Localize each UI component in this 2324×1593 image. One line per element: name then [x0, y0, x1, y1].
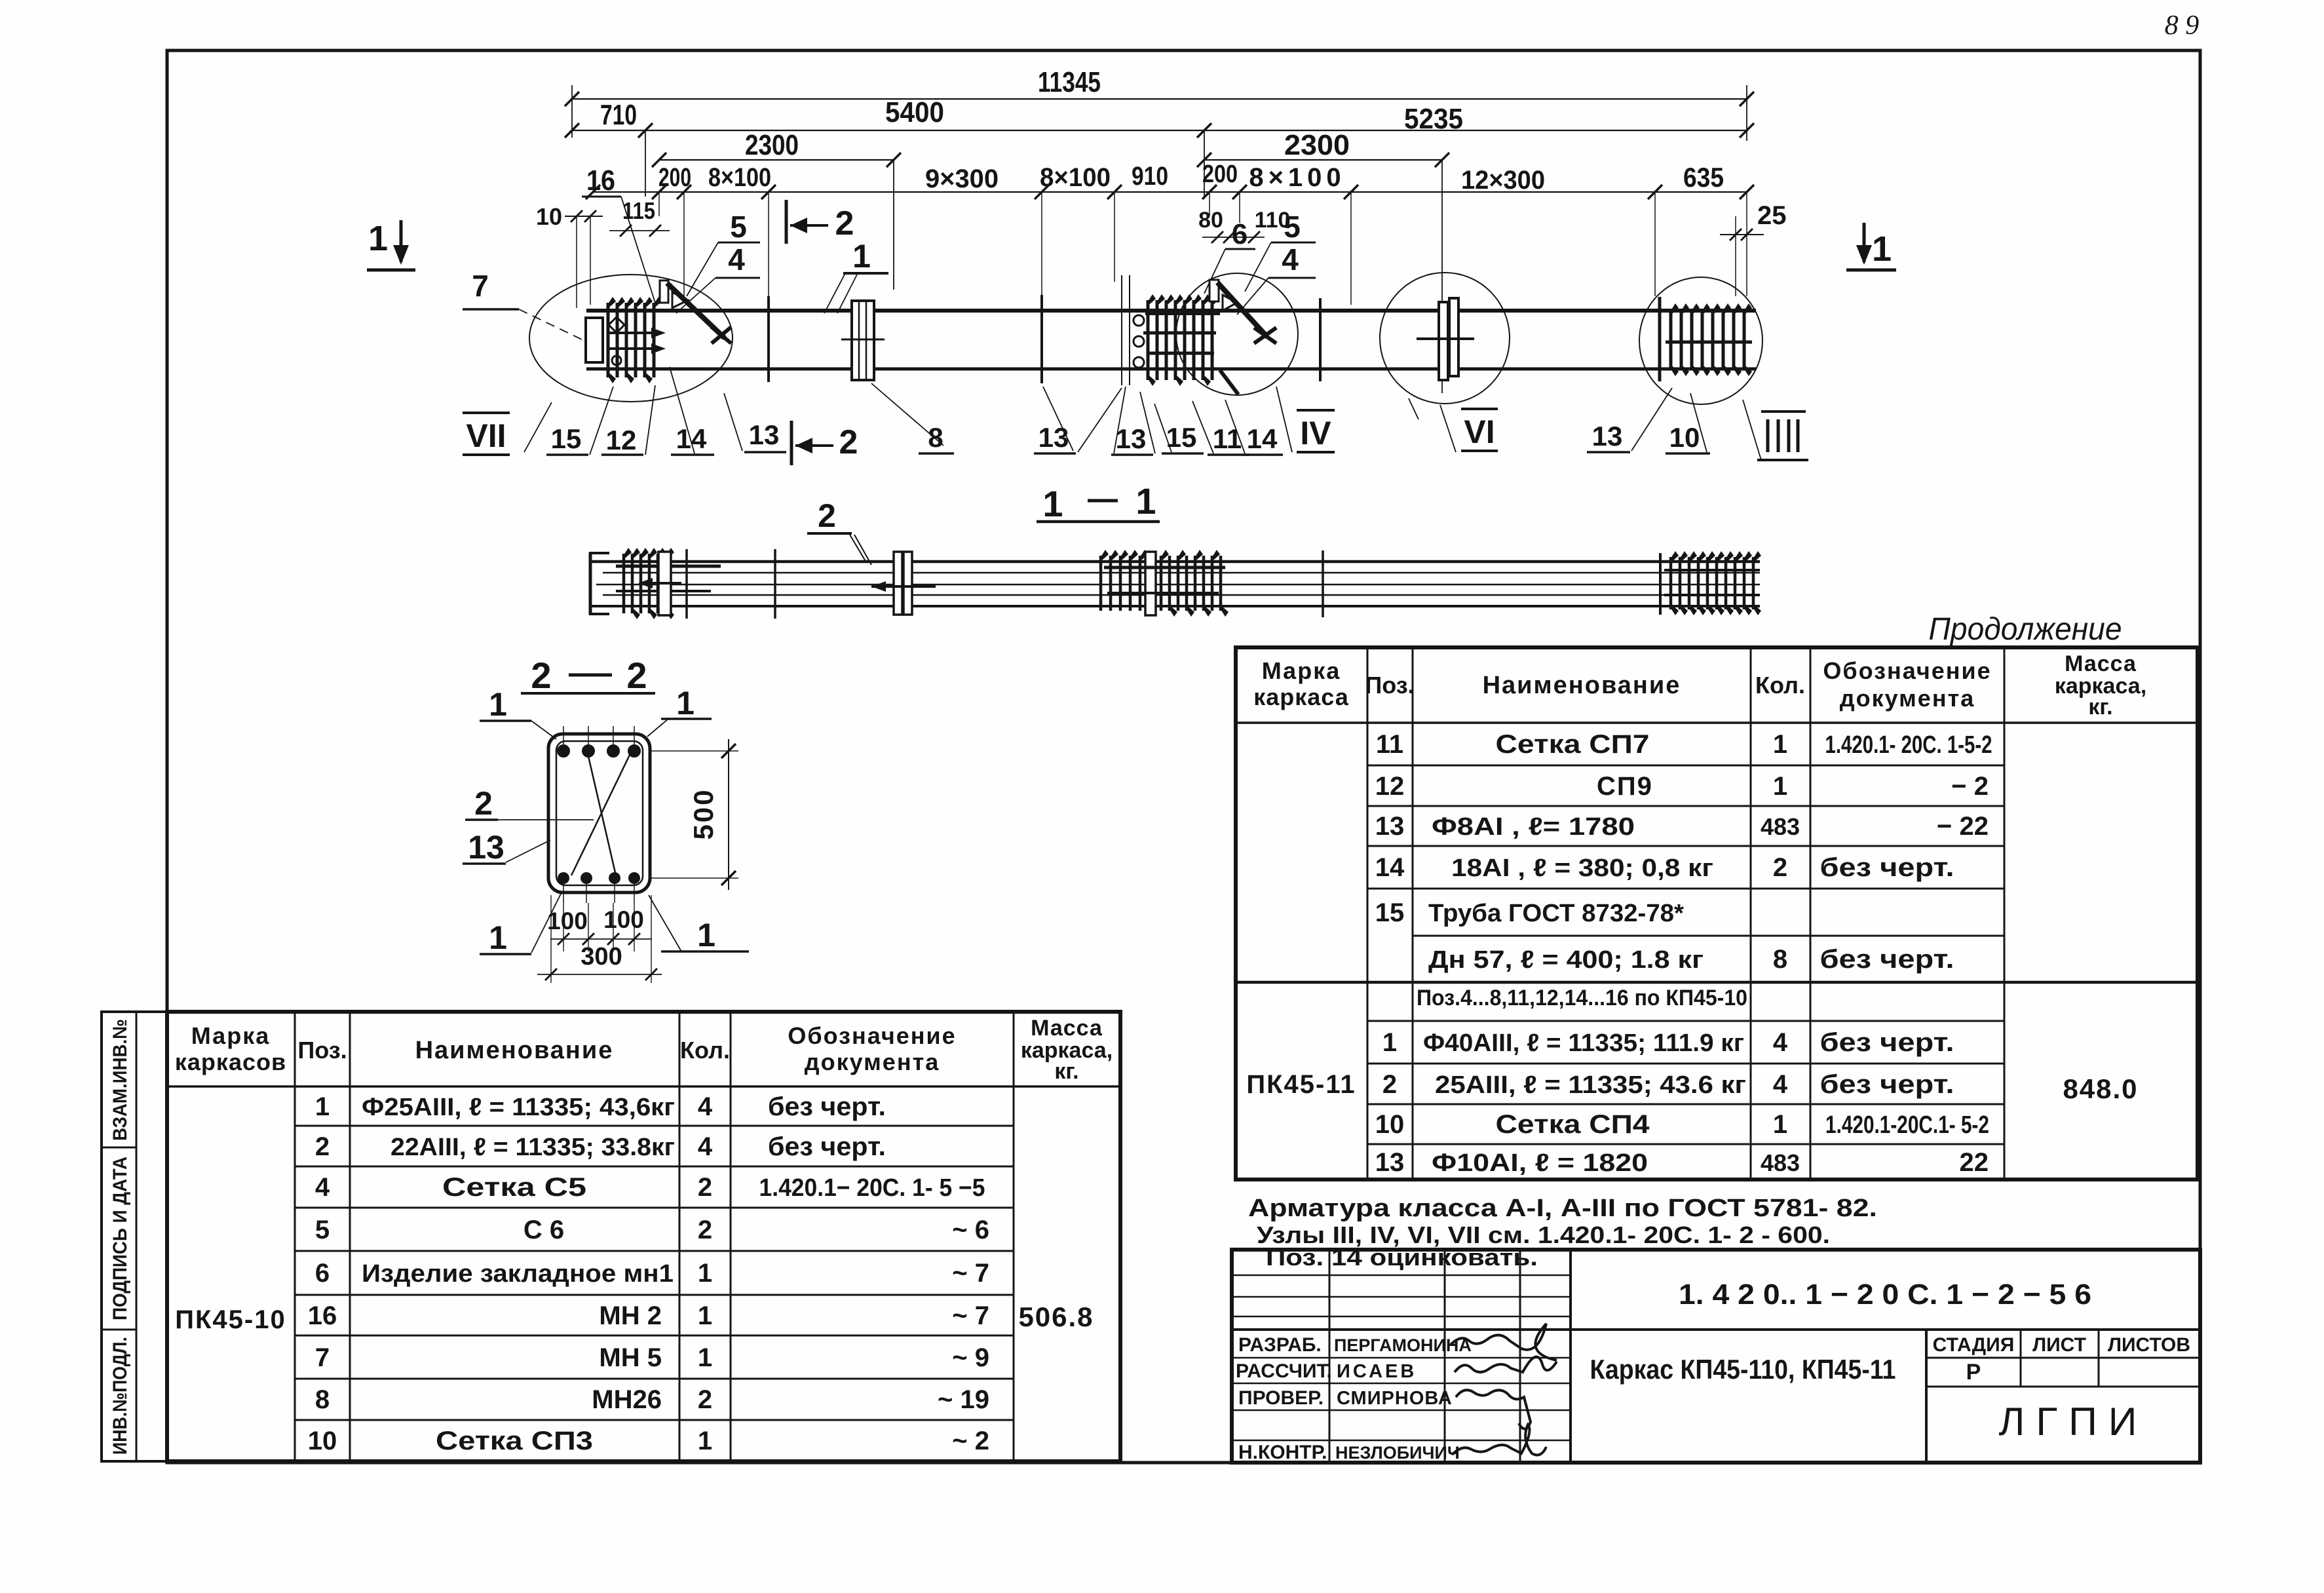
svg-text:НЕЗЛОБИЧИЧ: НЕЗЛОБИЧИЧ: [1335, 1443, 1460, 1463]
svg-text:Н.КОНТР.: Н.КОНТР.: [1238, 1442, 1327, 1463]
svg-text:без черт.: без черт.: [1820, 1070, 1954, 1099]
svg-text:1: 1: [852, 238, 871, 275]
margin strip box: [102, 1012, 167, 1461]
svg-text:2: 2: [531, 655, 551, 696]
svg-text:5235: 5235: [1404, 103, 1463, 135]
svg-text:15: 15: [1375, 898, 1405, 927]
section 1-1 mid plate: [894, 552, 902, 615]
svg-text:каркасов: каркасов: [175, 1048, 286, 1075]
svg-text:СМИРНОВА: СМИРНОВА: [1337, 1388, 1453, 1409]
detail circle VI: [1380, 273, 1510, 404]
embedded plate MH (pos 7) at left end: [586, 318, 603, 362]
svg-text:1.420.1− 20С. 1- 5 −5: 1.420.1− 20С. 1- 5 −5: [759, 1174, 985, 1202]
svg-text:12: 12: [1375, 772, 1405, 801]
svg-text:ИНВ.№ПОДЛ.: ИНВ.№ПОДЛ.: [109, 1337, 131, 1455]
svg-text:4: 4: [1773, 1028, 1788, 1057]
svg-text:2: 2: [818, 497, 836, 534]
svg-text:каркаса: каркаса: [1253, 683, 1349, 710]
svg-text:2: 2: [1773, 853, 1787, 882]
dimension row 710 / 5400 / 5235: [572, 130, 1747, 131]
svg-text:16: 16: [586, 164, 615, 197]
svg-text:910: 910: [1132, 162, 1168, 191]
detail circle IV: [1176, 273, 1298, 395]
svg-text:14: 14: [676, 423, 707, 454]
svg-text:Поз.: Поз.: [1365, 672, 1414, 699]
node label VI: [1461, 408, 1498, 410]
section 1-1 left cluster: [622, 554, 626, 613]
svg-text:1: 1: [368, 219, 388, 258]
svg-text:документа: документа: [1840, 685, 1975, 712]
svg-text:8: 8: [1773, 945, 1787, 974]
section mark 2 (bottom): [790, 421, 793, 465]
svg-text:80: 80: [1198, 208, 1223, 233]
svg-text:1: 1: [697, 917, 715, 953]
svg-text:11345: 11345: [1038, 66, 1101, 98]
svg-text:7: 7: [315, 1343, 330, 1372]
dimension 2300 left: [659, 159, 894, 161]
svg-text:848.0: 848.0: [2063, 1073, 2138, 1104]
svg-text:6: 6: [1232, 218, 1248, 250]
svg-text:Л Г П И: Л Г П И: [1999, 1400, 2137, 1444]
section 1-1 mid cluster: [1099, 556, 1103, 611]
svg-text:2: 2: [1382, 1070, 1397, 1099]
svg-text:1: 1: [489, 686, 507, 723]
svg-text:1: 1: [1872, 229, 1892, 269]
svg-text:Обозначение: Обозначение: [1823, 657, 1991, 684]
left cluster cross bars: [608, 332, 655, 334]
dimension 10 (left end offset): [565, 216, 603, 217]
svg-text:Поз.: Поз.: [297, 1037, 347, 1064]
beam top chord: [586, 309, 1756, 313]
svg-text:9×300: 9×300: [925, 164, 999, 193]
svg-text:710: 710: [600, 99, 637, 131]
svg-text:10: 10: [536, 203, 562, 230]
svg-text:11: 11: [1213, 423, 1242, 454]
node label IV: [1297, 409, 1335, 412]
svg-text:1: 1: [698, 1427, 712, 1455]
svg-text:5: 5: [730, 210, 747, 244]
svg-text:1: 1: [698, 1343, 712, 1372]
tube plate (pos 8): [852, 301, 874, 380]
svg-text:5: 5: [1284, 210, 1301, 244]
title block columns: [1329, 1250, 1331, 1463]
svg-text:1.420.1- 20С. 1-5-2: 1.420.1- 20С. 1-5-2: [1825, 731, 1992, 759]
svg-text:15: 15: [551, 423, 582, 454]
svg-text:22АIII, ℓ = 11335; 33.8кг: 22АIII, ℓ = 11335; 33.8кг: [391, 1134, 675, 1161]
weld diamond symbol: [609, 317, 624, 333]
svg-text:без черт.: без черт.: [1820, 1028, 1954, 1057]
svg-text:8×100: 8×100: [1040, 163, 1111, 192]
hole circle: [612, 356, 621, 365]
svg-text:IV: IV: [1300, 415, 1331, 451]
svg-text:Масса: Масса: [1031, 1016, 1103, 1041]
svg-text:Дн 57, ℓ = 400; 1.8 кг: Дн 57, ℓ = 400; 1.8 кг: [1428, 946, 1704, 974]
svg-text:2: 2: [698, 1173, 712, 1202]
svg-text:8: 8: [315, 1385, 330, 1414]
svg-text:2: 2: [835, 204, 854, 242]
mid cluster cross bars: [1145, 311, 1220, 315]
svg-text:Труба ГОСТ 8732-78*: Труба ГОСТ 8732-78*: [1428, 900, 1684, 927]
svg-text:ПЕРГАМОНИНА: ПЕРГАМОНИНА: [1334, 1335, 1472, 1355]
svg-text:Сетка СП3: Сетка СП3: [436, 1427, 593, 1455]
svg-text:МН 5: МН 5: [599, 1343, 662, 1372]
svg-text:Наименование: Наименование: [1483, 672, 1681, 699]
svg-text:Сетка СП4: Сетка СП4: [1496, 1110, 1650, 1139]
svg-text:Арматура класса А-I, А-III: Арматура класса А-I, А-III по ГОСТ 5781-…: [1248, 1195, 1877, 1222]
callout 16 leader: [582, 196, 621, 198]
svg-text:4: 4: [1282, 242, 1299, 277]
staff rows: [1232, 1357, 1571, 1359]
svg-text:Марка: Марка: [191, 1022, 270, 1049]
svg-text:Ф10АI, ℓ = 1820: Ф10АI, ℓ = 1820: [1432, 1149, 1648, 1177]
svg-text:ВЗАМ.ИНВ.№: ВЗАМ.ИНВ.№: [109, 1019, 131, 1141]
left table header underline: [167, 1085, 1120, 1088]
right table column lines: [1367, 647, 1369, 1180]
svg-text:~ 2: ~ 2: [952, 1427, 989, 1455]
svg-text:25: 25: [1757, 201, 1787, 230]
svg-text:200: 200: [658, 163, 691, 192]
svg-text:ЛИСТОВ: ЛИСТОВ: [2108, 1334, 2190, 1356]
svg-text:7: 7: [472, 269, 489, 303]
svg-text:кг.: кг.: [1054, 1059, 1078, 1084]
tube plate at detail VI: [1439, 302, 1448, 380]
svg-text:506.8: 506.8: [1018, 1301, 1094, 1332]
svg-text:10: 10: [1669, 422, 1700, 453]
svg-text:Ф8АI , ℓ= 1780: Ф8АI , ℓ= 1780: [1432, 813, 1635, 841]
svg-text:10: 10: [1375, 1110, 1405, 1139]
svg-text:16: 16: [308, 1301, 337, 1330]
svg-text:12×300: 12×300: [1461, 166, 1545, 195]
title block top rows (blank): [1232, 1275, 1571, 1276]
svg-text:Обозначение: Обозначение: [788, 1022, 956, 1049]
svg-text:Ф25АIII, ℓ = 11335; 43,6кг: Ф25АIII, ℓ = 11335; 43,6кг: [362, 1094, 675, 1121]
svg-text:Изделие закладное мн1: Изделие закладное мн1: [362, 1260, 674, 1288]
section 2-2 stirrup outline: [548, 734, 650, 892]
svg-text:483: 483: [1761, 813, 1800, 840]
dimension row 200 8x100 9x300 8x100 910 200 8x100 12x300 635: [593, 191, 1747, 193]
section 1-1 left end bracket: [589, 552, 592, 615]
svg-text:1: 1: [698, 1301, 712, 1330]
svg-text:8 9: 8 9: [2165, 10, 2200, 41]
svg-text:СТАДИЯ: СТАДИЯ: [1933, 1334, 2015, 1356]
svg-text:6: 6: [315, 1259, 330, 1288]
cell Karkas title: [1925, 1330, 1928, 1463]
title block outer: [1232, 1250, 2200, 1463]
left stirrup cluster (mesh C5/C6 zone): [607, 303, 610, 377]
left table row lines: [295, 1125, 1014, 1127]
svg-text:8: 8: [928, 422, 943, 453]
detail circle VII: [529, 275, 733, 402]
svg-text:С 6: С 6: [524, 1216, 564, 1244]
beam bottom chord: [586, 368, 1756, 371]
svg-text:1: 1: [1382, 1028, 1397, 1057]
section 1-1 tick: [1322, 550, 1324, 617]
svg-text:МН 2: МН 2: [599, 1301, 662, 1330]
svg-text:13: 13: [749, 419, 780, 450]
section 1-1 bar lines: [592, 560, 1760, 564]
svg-text:25АIII, ℓ = 11335; 43.6 кг: 25АIII, ℓ = 11335; 43.6 кг: [1435, 1071, 1746, 1099]
svg-text:ПК45-10: ПК45-10: [175, 1305, 286, 1334]
section 2-2 bottom bars: [558, 872, 569, 884]
svg-text:VI: VI: [1464, 413, 1495, 450]
svg-text:14: 14: [1247, 423, 1278, 454]
svg-text:1: 1: [1135, 480, 1156, 522]
inclined mesh flag (pos 4/5) left: [660, 280, 668, 303]
svg-text:без черт.: без черт.: [1820, 853, 1954, 882]
svg-text:ПОДПИСЬ И ДАТА: ПОДПИСЬ И ДАТА: [109, 1157, 131, 1320]
svg-text:МН26: МН26: [592, 1385, 662, 1414]
transverse bar tick at x2015: [1319, 298, 1322, 381]
svg-text:2: 2: [698, 1216, 712, 1244]
svg-text:ИСАЕВ: ИСАЕВ: [1337, 1361, 1417, 1382]
svg-text:Наименование: Наименование: [415, 1037, 614, 1064]
svg-text:1: 1: [489, 919, 507, 956]
svg-text:1: 1: [1773, 772, 1787, 801]
svg-text:11: 11: [1376, 730, 1403, 759]
mid cluster hole circles: [1133, 315, 1144, 326]
svg-text:635: 635: [1683, 162, 1724, 193]
svg-text:2: 2: [474, 785, 493, 822]
section 2-2 top bars: [558, 745, 569, 757]
right table header underline: [1236, 721, 2198, 724]
svg-text:13: 13: [468, 829, 505, 866]
svg-text:документа: документа: [805, 1048, 940, 1075]
svg-text:Поз.4...8,11,12,14...16 по КП4: Поз.4...8,11,12,14...16 по КП45-10: [1417, 986, 1747, 1010]
extension lines to beam: [658, 192, 660, 216]
doc number cell bottom: [1232, 1328, 2200, 1331]
svg-text:1. 4 2 0.. 1 − 2 0 С. 1 − 2: 1. 4 2 0.. 1 − 2 0 С. 1 − 2 − 5 6: [1679, 1278, 2091, 1311]
svg-text:1: 1: [315, 1092, 330, 1121]
svg-text:Продолжение: Продолжение: [1929, 612, 2122, 647]
svg-text:4: 4: [698, 1092, 713, 1121]
svg-text:Р: Р: [1966, 1360, 1981, 1385]
transverse bar tick at x1173: [767, 296, 770, 382]
svg-text:22: 22: [1960, 1148, 1989, 1177]
svg-text:~ 7: ~ 7: [952, 1301, 989, 1330]
svg-text:4: 4: [698, 1132, 713, 1161]
svg-text:~ 9: ~ 9: [952, 1343, 989, 1372]
svg-text:100: 100: [603, 906, 644, 933]
left table outer border: [167, 1012, 1120, 1461]
dimension 500: [650, 750, 738, 752]
svg-text:500: 500: [688, 788, 719, 839]
svg-text:13: 13: [1038, 422, 1069, 453]
svg-text:Каркас КП45-110, КП45-11: Каркас КП45-110, КП45-11: [1590, 1354, 1896, 1385]
svg-text:2: 2: [626, 655, 647, 696]
svg-text:1: 1: [1773, 1110, 1787, 1139]
svg-text:4: 4: [315, 1173, 330, 1202]
svg-text:5400: 5400: [885, 96, 944, 128]
svg-text:5: 5: [315, 1216, 330, 1244]
svg-text:РАССЧИТ.: РАССЧИТ.: [1236, 1360, 1332, 1382]
svg-text:1: 1: [698, 1259, 712, 1288]
svg-text:483: 483: [1761, 1149, 1800, 1176]
svg-text:без черт.: без черт.: [768, 1092, 886, 1121]
svg-text:РАЗРАБ.: РАЗРАБ.: [1238, 1334, 1322, 1356]
svg-text:кг.: кг.: [2088, 695, 2112, 720]
svg-text:100: 100: [547, 908, 588, 934]
node label IIII: [1761, 410, 1806, 413]
svg-text:Кол.: Кол.: [680, 1037, 730, 1064]
svg-text:Сетка С5: Сетка С5: [442, 1173, 586, 1202]
stadia list listov header: [1926, 1357, 2200, 1359]
svg-text:− 2: − 2: [1951, 772, 1989, 801]
svg-text:13: 13: [1375, 812, 1405, 841]
svg-text:ЛИСТ: ЛИСТ: [2032, 1334, 2086, 1356]
svg-text:СП9: СП9: [1597, 772, 1653, 801]
svg-text:~ 19: ~ 19: [938, 1385, 989, 1414]
right end cluster (mesh SP4): [1658, 297, 1662, 381]
svg-text:2300: 2300: [1284, 129, 1350, 161]
svg-text:2300: 2300: [745, 129, 799, 161]
svg-text:Ф40АIII, ℓ = 11335; 111.9 кг: Ф40АIII, ℓ = 11335; 111.9 кг: [1423, 1029, 1744, 1057]
svg-text:без черт.: без черт.: [1820, 945, 1954, 974]
detail circle IIII: [1639, 277, 1762, 404]
right table row lines: [1367, 765, 2004, 767]
svg-text:2: 2: [839, 423, 858, 461]
drawing frame border: [167, 50, 2200, 1463]
svg-text:1.420.1-20С.1- 5-2: 1.420.1-20С.1- 5-2: [1825, 1111, 1989, 1139]
mid cluster: section 2-2 cut lines: [1121, 275, 1122, 385]
svg-text:без черт.: без черт.: [768, 1132, 886, 1161]
section mark 2 (top): [785, 200, 788, 244]
svg-text:115: 115: [622, 197, 655, 224]
svg-text:~ 7: ~ 7: [952, 1259, 989, 1288]
svg-text:2: 2: [315, 1132, 330, 1161]
svg-text:2: 2: [698, 1385, 712, 1414]
svg-text:13: 13: [1375, 1148, 1405, 1177]
right cluster cross bar: [1666, 341, 1752, 344]
svg-text:12: 12: [606, 425, 637, 455]
transverse bar tick at x1590: [1040, 295, 1043, 383]
svg-text:200: 200: [1202, 161, 1238, 188]
svg-text:Кол.: Кол.: [1755, 672, 1805, 699]
section 1-1 right cluster: [1659, 553, 1662, 615]
right table outer border: [1236, 647, 2198, 1180]
svg-text:ПРОВЕР.: ПРОВЕР.: [1238, 1387, 1324, 1409]
svg-text:14: 14: [1375, 853, 1405, 882]
svg-text:8×100: 8×100: [708, 163, 771, 192]
dimension 11345 overall: [572, 98, 1747, 100]
svg-text:300: 300: [581, 943, 622, 970]
signatures: [1451, 1324, 1557, 1360]
dimension 2300 right: [1204, 159, 1442, 161]
svg-text:18АI , ℓ = 380; 0,8 кг: 18АI , ℓ = 380; 0,8 кг: [1451, 854, 1713, 882]
section 2-2 cross ties X: [588, 754, 616, 875]
svg-text:13: 13: [1592, 421, 1623, 451]
svg-text:VII: VII: [466, 417, 506, 454]
left table column lines: [294, 1012, 296, 1461]
svg-text:Масса: Масса: [2065, 651, 2137, 676]
node label VII: [463, 412, 510, 414]
svg-text:− 22: − 22: [1937, 812, 1989, 841]
svg-text:~ 6: ~ 6: [952, 1216, 989, 1244]
inclined mesh flag (pos 4/5) right: [1210, 280, 1219, 301]
svg-text:Сетка СП7: Сетка СП7: [1496, 730, 1650, 759]
svg-text:1: 1: [1773, 730, 1787, 759]
svg-text:4: 4: [1773, 1070, 1788, 1099]
svg-text:1: 1: [1042, 483, 1063, 524]
svg-text:13: 13: [1116, 423, 1147, 454]
svg-text:4: 4: [728, 242, 745, 277]
mid rebar cluster (meshes SP7/SP9): [1147, 300, 1150, 380]
svg-text:8×100: 8×100: [1249, 163, 1345, 192]
svg-text:1: 1: [676, 685, 695, 721]
svg-text:10: 10: [308, 1427, 337, 1455]
svg-text:Марка: Марка: [1262, 657, 1341, 684]
svg-text:ПК45-11: ПК45-11: [1246, 1070, 1356, 1099]
